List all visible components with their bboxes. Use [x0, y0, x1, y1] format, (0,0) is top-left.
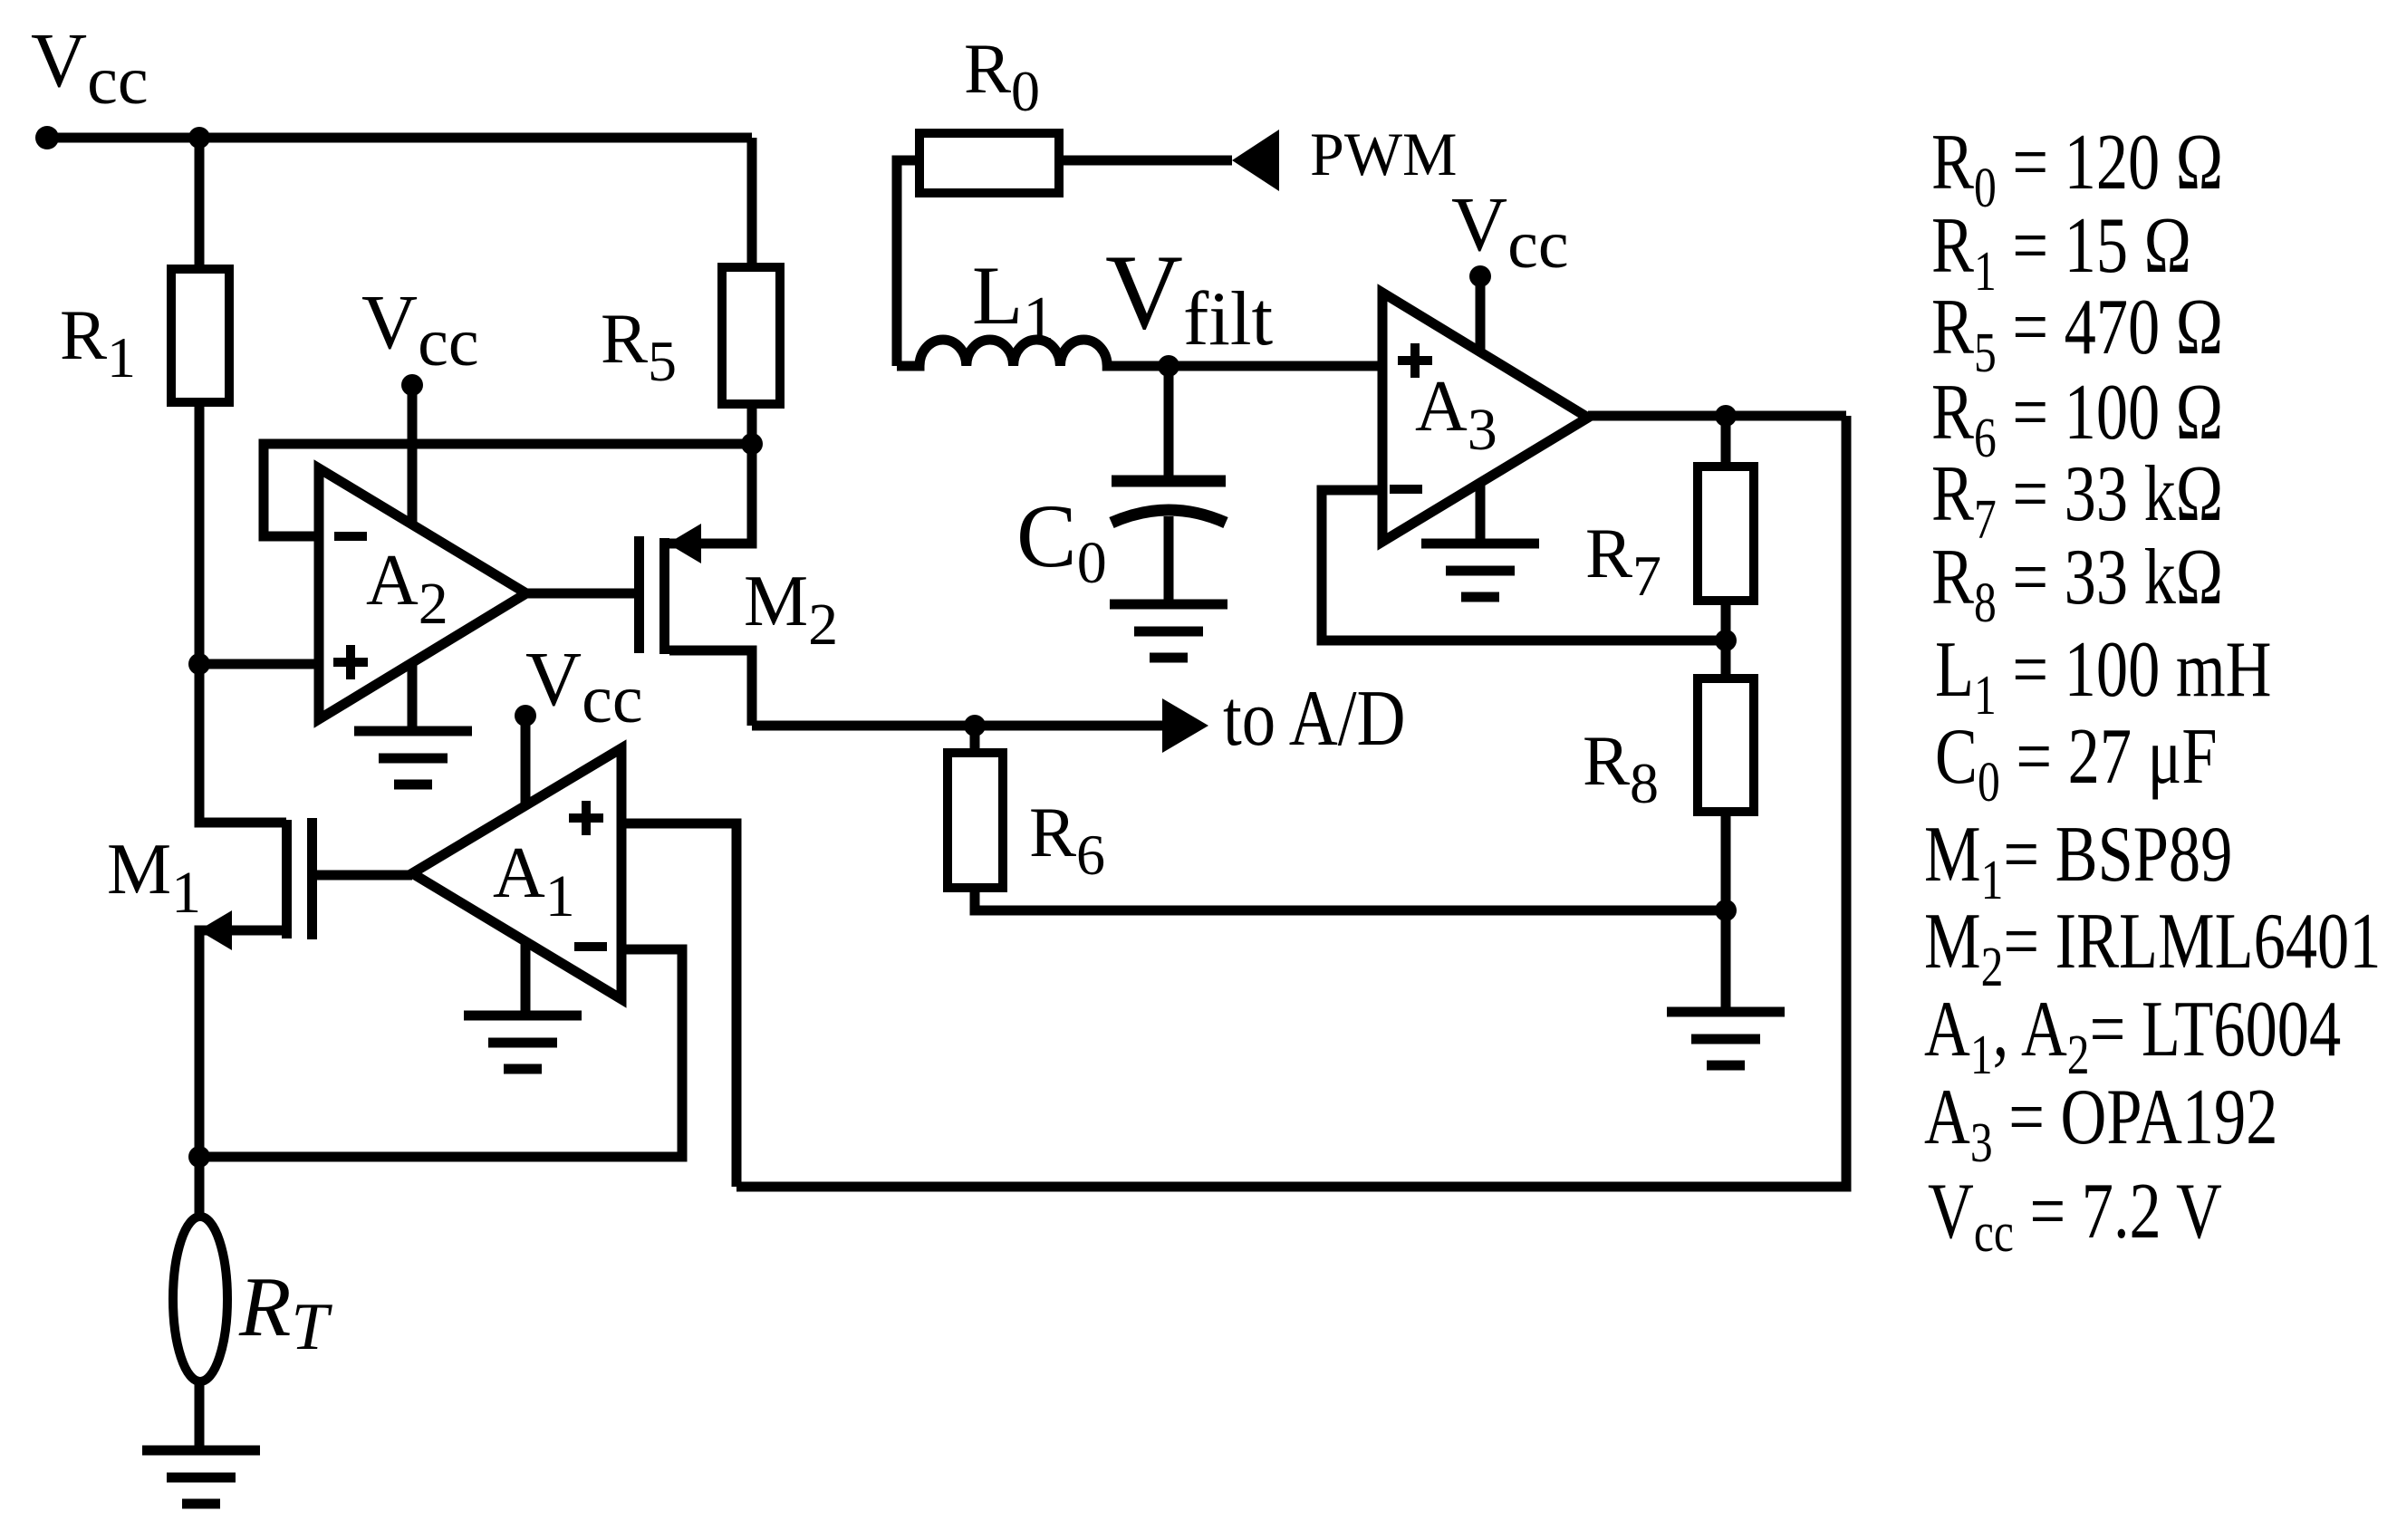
svg-text:M1= BSP89: M1= BSP89: [1924, 811, 2232, 912]
wire: R7 top lead: [1721, 416, 1731, 467]
wire: output rail down and back to A1 +: [736, 416, 1846, 1187]
transistor M2 channel bar: [659, 538, 669, 654]
junction dot (A3 output / R7): [1715, 405, 1737, 427]
wire: A2 feedback from R5 node to inverting input: [264, 444, 752, 536]
op-amp A1: [412, 748, 621, 999]
wire: R1 bottom to A2 + node: [195, 402, 205, 664]
wire: A3 output: [1588, 411, 1846, 421]
A1 plus sign: [569, 801, 603, 835]
wire: C0 to ground: [1164, 516, 1174, 609]
thermistor RT: [173, 1217, 227, 1381]
A3 plus sign: [1398, 343, 1432, 378]
wire: R0 left lead down to L1: [897, 160, 919, 366]
wire: node down to M1 drain: [199, 664, 286, 823]
wire: R0 right lead to PWM: [1059, 156, 1232, 166]
wire: A1 - input feedback: [199, 949, 682, 1157]
svg-text:R5: R5: [601, 299, 677, 393]
junction dot (R8 / R6 return): [1715, 900, 1737, 921]
wire: R7 bottom to R8 top: [1721, 601, 1731, 679]
wire: A1 output to M1 gate: [317, 871, 412, 881]
supply dot Vcc (A3): [1469, 265, 1491, 287]
svg-text:R8: R8: [1583, 721, 1659, 815]
wire: rail down to R5: [747, 138, 757, 267]
wire: R8 bottom to ground: [1721, 812, 1731, 1012]
A1 minus sign: [574, 942, 607, 951]
svg-text:A3 = OPA192: A3 = OPA192: [1924, 1073, 2277, 1175]
svg-text:M1: M1: [107, 830, 201, 926]
wire: Vfilt down to C0: [1164, 366, 1174, 477]
junction dot (R5 / M2 source / feedback): [741, 433, 763, 455]
svg-text:M2: M2: [744, 562, 838, 658]
ground (C0): [1110, 604, 1227, 658]
junction dot (A/D line / R6): [964, 715, 986, 736]
svg-text:M2= IRLML6401: M2= IRLML6401: [1924, 898, 2381, 999]
wire: Vfilt to A3 + input: [1169, 361, 1382, 371]
svg-text:R0: R0: [964, 29, 1040, 123]
junction dot Vfilt: [1158, 355, 1179, 377]
ground (A2): [354, 731, 472, 784]
svg-text:Vcc: Vcc: [525, 635, 643, 737]
wire: A2 output to M2 gate: [526, 589, 634, 599]
op-amp A2: [319, 468, 526, 719]
wire: M1 source to RT node: [199, 930, 286, 1157]
wire: node down to R6: [970, 726, 980, 753]
PWM input arrow: [1232, 130, 1279, 191]
wire: node to A2 + input: [199, 659, 319, 669]
terminal dot Vcc: [35, 126, 59, 149]
wire: rail down to R1: [195, 138, 205, 269]
A2 plus sign: [333, 645, 368, 679]
junction dot (R7 / R8 / A3 feedback): [1715, 630, 1737, 651]
resistor R6: [948, 753, 1003, 888]
svg-text:R1: R1: [60, 295, 136, 390]
transistor M2 gate bar: [634, 536, 644, 653]
svg-text:Vcc = 7.2 V: Vcc = 7.2 V: [1928, 1168, 2222, 1265]
svg-text:L1 = 100 mH: L1 = 100 mH: [1935, 626, 2271, 727]
M2 source arrow: [668, 524, 701, 563]
value list: [1924, 119, 2381, 1265]
wire: A3 inverting feedback: [1322, 490, 1726, 640]
svg-text:Vcc: Vcc: [31, 16, 149, 119]
transistor M1 channel bar: [282, 820, 292, 938]
op-amp A3: [1382, 293, 1588, 542]
svg-text:RT: RT: [238, 1260, 332, 1364]
wire: A/D line: [752, 721, 1164, 731]
wire: A1 + input from output rail: [621, 823, 736, 1187]
M1 source arrow: [198, 910, 232, 950]
arrow to A/D: [1162, 698, 1208, 753]
inductor L1: [897, 340, 1169, 366]
capacitor C0 top plate: [1112, 476, 1226, 487]
svg-text:Vcc: Vcc: [1451, 180, 1569, 283]
svg-text:PWM: PWM: [1310, 120, 1457, 188]
svg-text:Vfilt: Vfilt: [1105, 232, 1273, 361]
wire: R6 bottom to R8 bottom node: [975, 888, 1726, 910]
supply dot Vcc (A2): [401, 374, 423, 396]
resistor R5: [722, 267, 780, 404]
svg-text:C0: C0: [1016, 486, 1107, 596]
junction dot (M1 source / A1 feedback / RT): [188, 1146, 210, 1168]
ground (R8): [1667, 1012, 1785, 1065]
A2 minus sign: [334, 532, 367, 541]
svg-text:C0 = 27 μF: C0 = 27 μF: [1935, 713, 2217, 814]
svg-text:A1, A2= LT6004: A1, A2= LT6004: [1924, 986, 2341, 1087]
A2 supply line: [408, 385, 418, 731]
junction dot (rail / R1): [188, 127, 210, 149]
wire: M2 drain down to A/D line: [669, 650, 752, 726]
ground (RT): [142, 1450, 260, 1504]
capacitor C0 bottom plate: [1112, 510, 1226, 523]
ground (A1): [464, 1015, 582, 1069]
svg-text:R6: R6: [1029, 793, 1105, 887]
svg-text:R7: R7: [1585, 514, 1661, 608]
resistor R7: [1698, 467, 1754, 601]
resistor R8: [1698, 679, 1754, 812]
A1 supply line: [521, 716, 531, 1015]
supply dot Vcc (A1): [515, 705, 536, 727]
svg-text:Vcc: Vcc: [361, 278, 479, 380]
wire: R5 node down to M2 source: [669, 444, 752, 544]
junction dot (R1 / A2 + input): [188, 653, 210, 675]
A3 minus sign: [1390, 485, 1422, 494]
svg-text:L1: L1: [972, 249, 1054, 354]
transistor M1 gate bar: [307, 818, 317, 939]
wire: Vcc top rail: [47, 133, 752, 143]
wire: R5 bottom to node: [747, 404, 757, 444]
A3 supply line: [1476, 276, 1486, 544]
resistor R0: [919, 133, 1059, 193]
wire: node down through RT to ground: [195, 1157, 205, 1446]
ground (A3): [1421, 544, 1539, 597]
svg-text:to A/D: to A/D: [1223, 673, 1406, 762]
resistor R1: [171, 269, 229, 402]
